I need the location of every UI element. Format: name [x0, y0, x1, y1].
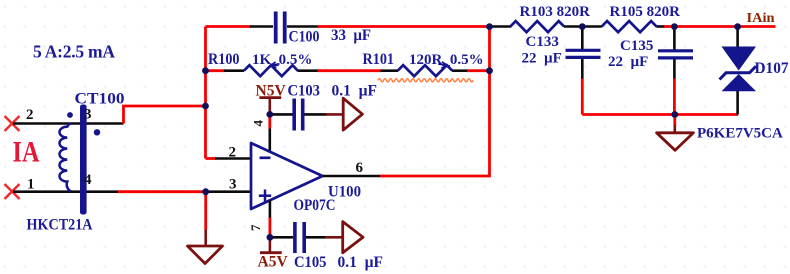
svg-text:22 µF: 22 µF	[522, 51, 562, 67]
power port N5V	[259, 98, 281, 112]
wire: down to left ground	[204, 192, 207, 246]
node: pin3 / ground	[202, 188, 209, 195]
svg-text:OP07C: OP07C	[294, 197, 336, 214]
svg-text:1: 1	[27, 177, 35, 193]
capacitor C100	[276, 12, 285, 44]
node: loop left transformer tap	[202, 103, 209, 110]
wire: N5V node to C103	[270, 113, 293, 116]
label R105 820R	[610, 4, 681, 20]
label R103 820R	[520, 4, 591, 20]
label OP07C	[294, 197, 336, 214]
value 0.1 uF (C103)	[332, 83, 378, 100]
svg-text:A5V: A5V	[258, 254, 289, 271]
pin 1 X no-connect	[5, 184, 20, 199]
label R100	[208, 51, 240, 68]
svg-text:0.1 µF: 0.1 µF	[332, 83, 378, 100]
svg-text:IAin: IAin	[747, 11, 775, 26]
svg-text:120R_0.5%: 120R_0.5%	[409, 52, 484, 68]
pin number 3 (CT100 pin 3)	[84, 107, 92, 123]
error squiggle	[378, 79, 473, 82]
ground (left, power gnd)	[188, 246, 223, 264]
label C100	[289, 29, 320, 46]
svg-text:2: 2	[26, 107, 34, 123]
pin number 6 (op-amp)	[356, 160, 364, 176]
svg-text:C133: C133	[526, 34, 559, 50]
ground (right-pointing, N5V decouple)	[343, 98, 362, 130]
wire: op-amp output	[323, 27, 490, 177]
node: C135 tap	[671, 23, 678, 30]
wire: C105 to right ground	[306, 236, 343, 239]
svg-text:HKCT21A: HKCT21A	[27, 217, 93, 234]
svg-text:R103 820R: R103 820R	[520, 4, 591, 20]
label C133	[526, 34, 559, 50]
wire: D107 column	[736, 27, 739, 115]
value 120R 0.5%	[409, 52, 484, 68]
pin number 1 (CT100 pin 1)	[27, 177, 35, 193]
TVS diode D107	[720, 47, 757, 92]
power port A5V	[260, 237, 282, 252]
svg-text:C103: C103	[288, 83, 321, 100]
pin 2 X no-connect	[5, 116, 20, 131]
net label IAin	[747, 11, 775, 26]
wire: feedback loop left vertical	[204, 27, 207, 159]
wire: C135 column	[673, 27, 676, 115]
wire: C103 to right ground	[305, 113, 344, 116]
wire: A5V node to C105	[270, 236, 293, 239]
label N5V	[256, 83, 287, 100]
svg-text:D107: D107	[755, 60, 789, 77]
svg-text:C135: C135	[620, 38, 653, 54]
wire: CT100 bottom pin	[13, 190, 119, 193]
node: D107 tap	[734, 23, 741, 30]
wire: R100/R101 row	[206, 69, 490, 72]
resistor R100	[244, 62, 298, 76]
resistor R103	[510, 21, 564, 32]
label D107	[755, 60, 789, 77]
label A5V	[258, 254, 289, 271]
op-amp U100	[251, 143, 323, 209]
node: loop left R100	[202, 67, 209, 74]
label R101	[363, 51, 395, 68]
capacitor C133	[566, 50, 601, 57]
wire: right ground stem	[673, 115, 676, 134]
svg-text:0.1 µF: 0.1 µF	[338, 254, 384, 271]
label C135	[620, 38, 653, 54]
node N5V junction	[266, 111, 273, 118]
value 33 uF	[331, 27, 371, 44]
wire: top loop (C100 branch)	[206, 25, 491, 28]
svg-text:22 µF: 22 µF	[608, 54, 648, 70]
svg-text:4: 4	[84, 172, 92, 188]
wire: op-amp pin 4	[268, 114, 271, 152]
node A5V junction	[267, 234, 274, 241]
value 0.1 uF (C105)	[338, 254, 384, 271]
capacitor C105	[295, 222, 304, 253]
svg-text:R101: R101	[363, 51, 395, 68]
wire: C133 column	[581, 27, 584, 115]
label P6KE7V5CA	[697, 126, 783, 142]
node: R103/R105/C133	[579, 23, 586, 30]
net label IA	[13, 136, 40, 169]
node: bottom rail ground	[671, 111, 678, 118]
node: loop right mid	[486, 67, 493, 74]
pin number 2 (op-amp)	[229, 145, 237, 161]
wire: CT100 top pin	[13, 122, 124, 125]
capacitor C103	[294, 99, 303, 131]
pin number 2 (CT100 pin 2)	[26, 107, 34, 123]
label CT100	[75, 91, 125, 108]
transformer CT100	[59, 105, 100, 215]
ground (right-pointing, A5V decouple)	[343, 222, 363, 253]
resistor R105	[602, 21, 657, 32]
svg-text:1K_0.5%: 1K_0.5%	[252, 52, 312, 68]
wire: to op-amp pin 2	[206, 157, 252, 160]
node: loop right top	[486, 23, 493, 30]
capacitor C135	[658, 51, 693, 58]
svg-text:R105 820R: R105 820R	[610, 4, 681, 20]
wire: transformer bottom to op-amp pin 3	[118, 190, 251, 193]
svg-text:33 µF: 33 µF	[331, 27, 371, 44]
svg-text:6: 6	[356, 160, 364, 176]
wire: op-amp pin 7	[269, 200, 272, 234]
svg-text:P6KE7V5CA: P6KE7V5CA	[697, 126, 783, 142]
svg-text:5 A:2.5 mA: 5 A:2.5 mA	[33, 42, 115, 62]
pin number 7 (op-amp)	[248, 224, 263, 231]
svg-text:C100: C100	[289, 29, 320, 46]
pin number 3 (op-amp)	[229, 177, 237, 193]
label 5A:2.5mA	[33, 42, 115, 62]
value 1K 0.5%	[252, 52, 312, 68]
svg-text:7: 7	[248, 224, 263, 231]
svg-text:2: 2	[229, 145, 237, 161]
svg-text:IA: IA	[13, 136, 40, 169]
label U100	[328, 184, 361, 201]
svg-text:3: 3	[229, 177, 237, 193]
label C105	[294, 254, 327, 271]
value 22 uF (C133)	[522, 51, 562, 67]
svg-text:3: 3	[84, 107, 92, 123]
svg-text:N5V: N5V	[256, 83, 287, 100]
wire: top-right rail	[490, 25, 776, 28]
resistor R101	[398, 62, 453, 76]
label C103	[288, 83, 321, 100]
svg-text:CT100: CT100	[75, 91, 125, 108]
value 22 uF (C135)	[608, 54, 648, 70]
pin number 4 (CT100 pin 4)	[84, 172, 92, 188]
svg-text:R100: R100	[208, 51, 240, 68]
label HKCT21A	[27, 217, 93, 234]
ground (right, power gnd)	[657, 133, 694, 151]
wire: bottom-right rail	[582, 113, 738, 116]
pin number 4 (op-amp)	[251, 120, 266, 127]
wire: transformer top to loop (red jog)	[124, 106, 206, 124]
svg-text:C105: C105	[294, 254, 327, 271]
svg-text:4: 4	[251, 120, 266, 127]
